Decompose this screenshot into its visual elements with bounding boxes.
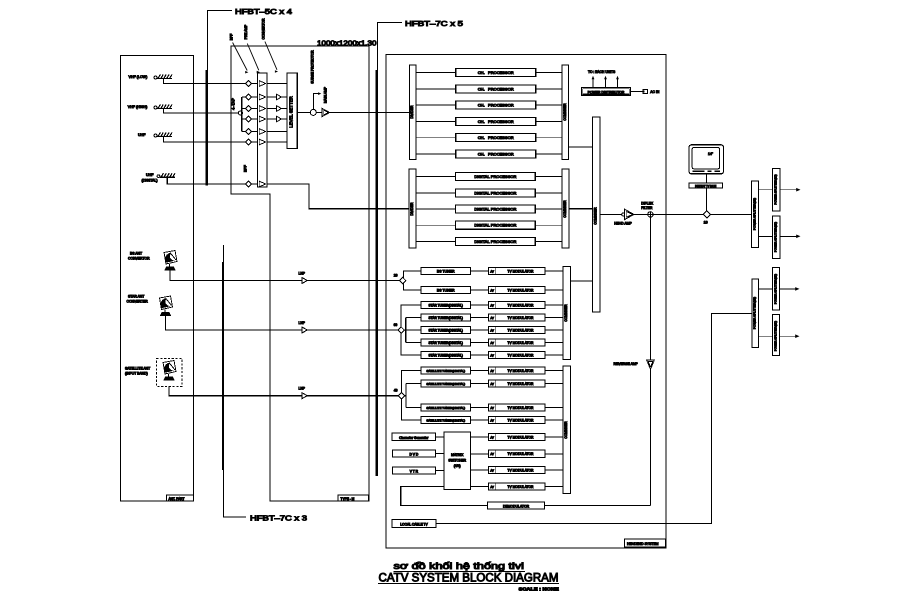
antenna VHF (HIGH) (128, 105, 172, 110)
svg-text:BS TUNER: BS TUNER (437, 269, 455, 273)
AV TV MODULATOR 11 (489, 416, 563, 423)
svg-text:POWER SPLITTER(2B): POWER SPLITTER(2B) (752, 198, 756, 230)
svg-text:POWER SPLITTER(2B): POWER SPLITTER(2B) (753, 297, 757, 329)
svg-text:TV MODULATOR: TV MODULATOR (508, 406, 535, 410)
COMBINER bar (SATELLITE/matrix modulators) (563, 366, 571, 494)
svg-text:POWER SPLITTER(2D): POWER SPLITTER(2D) (774, 222, 778, 252)
wire local cable tv to power splitter group 2 (436, 313, 752, 523)
svg-text:TV MODULATOR: TV MODULATOR (508, 435, 535, 439)
CH PROCESSOR 6 (416, 150, 562, 158)
svg-text:TV MODULATOR: TV MODULATOR (508, 452, 535, 456)
wire VHF (LOW) to BPF diamond (164, 79, 246, 84)
svg-text:TV MODULATOR: TV MODULATOR (508, 353, 535, 357)
rotated label BPF with arrow to diamond column (230, 34, 249, 74)
pre-amplifier triangle row 5 (259, 129, 265, 135)
svg-text:STAR TUNER(DIGITAL): STAR TUNER(DIGITAL) (429, 328, 463, 332)
svg-text:UHF: UHF (146, 173, 154, 177)
DIGITAL PROCESSOR 2 (416, 189, 562, 197)
svg-text:TV MODULATOR: TV MODULATOR (508, 303, 535, 307)
svg-text:COMBINER: COMBINER (564, 421, 568, 439)
svg-text:AV: AV (490, 269, 494, 273)
POWER SPLITTER sub-bar 1A (759, 168, 801, 211)
svg-text:VHF (LOW): VHF (LOW) (129, 75, 148, 79)
svg-text:AV: AV (490, 369, 494, 373)
svg-text:STAR ANT: STAR ANT (128, 295, 144, 299)
svg-text:CH. PROCESSOR: CH. PROCESSOR (478, 135, 514, 140)
antenna STAR ANT CONVERTER (127, 295, 173, 316)
wire LNP to SATELLITE splitter diamond (307, 395, 398, 397)
wire diamond to amp row 7 (252, 183, 258, 185)
svg-text:TV MODULATOR: TV MODULATOR (508, 316, 535, 320)
wire LNP to STAR splitter diamond (307, 329, 398, 331)
svg-text:DETECT TV MON: DETECT TV MON (695, 184, 716, 188)
svg-text:1000x1200x1.30: 1000x1200x1.30 (317, 41, 377, 48)
svg-text:SATELLITE TUNER(DIGITAL): SATELLITE TUNER(DIGITAL) (426, 406, 465, 410)
AV TV MODULATOR 7 (489, 351, 564, 358)
svg-text:TV MODULATOR: TV MODULATOR (508, 341, 535, 345)
svg-text:BS ANT: BS ANT (130, 252, 142, 256)
AV TV MODULATOR 14 (489, 466, 563, 473)
svg-text:COMBINER: COMBINER (563, 200, 567, 218)
svg-text:HEAD AMP: HEAD AMP (614, 222, 632, 226)
BPF diamond row 5 (246, 129, 252, 135)
svg-text:14": 14" (708, 152, 714, 156)
AV TV MODULATOR 6 (489, 339, 564, 346)
BPF diamond row 7 (246, 181, 252, 187)
svg-text:SCALE : NONE: SCALE : NONE (519, 587, 559, 592)
wire diamond to amp row 1 (252, 83, 258, 85)
svg-text:AV: AV (490, 468, 494, 472)
svg-text:POWER SPLITTER(2D): POWER SPLITTER(2D) (773, 274, 777, 304)
svg-text:CH. PROCESSOR: CH. PROCESSOR (478, 86, 514, 91)
rotated label PRE AMP with arrow to amp bank (244, 24, 260, 74)
svg-text:STAR TUNER(DIGITAL): STAR TUNER(DIGITAL) (429, 353, 463, 357)
svg-text:ANT. PART: ANT. PART (169, 497, 185, 501)
wire BS/STAR combiner to main combiner (571, 280, 593, 282)
second stage amplifier row 3 (267, 106, 287, 112)
DIGITAL COMBINER bar (562, 169, 569, 248)
wires matrix switcher outputs to modulators (471, 437, 489, 487)
LNP amplifier (STAR line) (299, 321, 308, 333)
booster equipment enclosure box (stepped) (231, 46, 369, 501)
wires amp bank to level setter rows 1,5,6 (267, 84, 287, 143)
svg-text:DIGITAL PROCESSOR: DIGITAL PROCESSOR (474, 174, 516, 179)
BS branch wires (404, 271, 421, 290)
wire BPF bypass output to DIGITAL divider (267, 184, 409, 209)
POWER SPLITTER sub-bar 2A (758, 267, 799, 310)
svg-text:COMBINER: COMBINER (594, 207, 598, 225)
POWER DISTRIBUTOR box (581, 88, 630, 96)
svg-text:VHF (HIGH): VHF (HIGH) (128, 105, 148, 109)
BS splitter diamond (399, 277, 405, 283)
BPF diamond row 6 (246, 139, 252, 145)
DIGITAL PROCESSOR 5 (416, 238, 562, 246)
AV TV MODULATOR 10 (489, 404, 563, 411)
antenna part enclosure box (121, 56, 194, 502)
svg-text:AV: AV (490, 418, 494, 422)
BS TUNER 2 (421, 286, 489, 293)
svg-text:TV MODULATOR: TV MODULATOR (508, 369, 535, 373)
antenna UHF (138, 133, 172, 138)
BS TUNER 1 (421, 267, 489, 274)
svg-text:AV: AV (490, 288, 494, 292)
DVD box (392, 450, 444, 457)
CH PROCESSOR 4 (416, 117, 562, 125)
antenna SATELLITE ANT (INPUT BAND) (125, 359, 182, 387)
antenna BS ANT CONVERTOR (128, 251, 177, 271)
label box HEADEND SYSTEM (625, 539, 666, 547)
svg-text:LNP: LNP (299, 321, 306, 325)
4-TAP distribution wires (242, 97, 246, 132)
MATRIX SWITCHER box (444, 432, 471, 490)
svg-text:LNP: LNP (299, 387, 306, 391)
wire BS antenna to LNP (170, 270, 302, 280)
svg-text:DIPLEX: DIPLEX (641, 202, 654, 206)
wire demodulator to matrix switcher input 4 (401, 487, 488, 506)
second stage amplifier row 2 (267, 94, 287, 100)
SATELLITE TUNER 4 (421, 416, 489, 423)
svg-text:LNP: LNP (299, 271, 306, 275)
DIGITAL DIVIDER bar (409, 169, 416, 248)
rotated label CONVERTOR with arrow (262, 18, 279, 73)
AV TV MODULATOR 5 (489, 326, 564, 333)
svg-text:AV: AV (490, 328, 494, 332)
svg-text:4–TAP: 4–TAP (230, 98, 235, 110)
svg-text:AV: AV (490, 303, 494, 307)
svg-text:COMBINER: COMBINER (564, 304, 568, 322)
svg-text:BS TUNER: BS TUNER (437, 288, 455, 292)
STAR TUNER(DIGITAL) 2 (421, 314, 489, 321)
svg-text:AV: AV (490, 435, 494, 439)
LEVEL SETTER box (287, 73, 297, 149)
surge protector circle (310, 109, 316, 115)
monitor junction diamond with label 10 (703, 211, 710, 225)
svg-text:TV MODULATOR: TV MODULATOR (508, 485, 535, 489)
REVERSE AMP (614, 360, 655, 369)
pre-amplifier triangle row 1 (259, 81, 265, 87)
svg-text:(INPUT BAND): (INPUT BAND) (125, 372, 148, 376)
AV TV MODULATOR 4 (489, 314, 564, 321)
wire main amp to CH divider (330, 112, 410, 114)
svg-text:20: 20 (394, 274, 398, 278)
wire diamond to amp row 2 (252, 96, 258, 98)
SATELLITE TUNER 1 (421, 367, 489, 374)
DIGITAL PROCESSOR 4 (416, 221, 562, 229)
wire monitor to junction (706, 174, 708, 211)
svg-text:BPF: BPF (230, 34, 234, 40)
AV TV MODULATOR 8 (489, 367, 563, 374)
leader HFBT-5C x 4 (206, 7, 292, 186)
svg-text:MATRIX: MATRIX (451, 453, 464, 457)
DIPLEX FILTER (641, 202, 654, 218)
svg-text:CH. PROCESSOR: CH. PROCESSOR (478, 103, 514, 108)
wire diamond to amp row 5 (252, 131, 258, 133)
svg-text:HEADEND SYSTEM: HEADEND SYSTEM (627, 542, 659, 546)
antenna VHF (LOW) (129, 75, 173, 80)
wire demodulator to reverse path (545, 505, 651, 507)
reverse path wire from diplex filter down to demodulator (649, 217, 651, 506)
svg-text:DIGITAL PROCESSOR: DIGITAL PROCESSOR (474, 223, 516, 228)
POWER SPLITTER sub-bar 1B (759, 216, 801, 258)
svg-text:10: 10 (704, 220, 708, 224)
svg-text:LOCAL CABLE TV: LOCAL CABLE TV (400, 523, 428, 527)
svg-text:HFBT–7C x 5: HFBT–7C x 5 (405, 19, 463, 28)
svg-text:(4/4): (4/4) (454, 464, 461, 468)
wire UHF (DIGITAL) to BPF diamond (167, 177, 246, 184)
MAIN COMBINER bar (593, 117, 601, 312)
AV TV MODULATOR 1 (489, 267, 564, 274)
leader HFBT-7C x 5 (376, 19, 463, 476)
svg-text:TV MODULATOR: TV MODULATOR (508, 382, 535, 386)
wire diamond to amp row 3 (252, 108, 258, 110)
svg-text:TV MODULATOR: TV MODULATOR (508, 468, 535, 472)
SATELLITE branch wires (401, 371, 421, 421)
CH PROCESSOR 3 (416, 101, 562, 109)
svg-text:V T R: V T R (410, 470, 419, 474)
wire VHF (HIGH) to 4-TAP (164, 109, 239, 114)
leader HFBT-7C x 3 (222, 245, 307, 523)
svg-text:AC IN: AC IN (650, 90, 660, 94)
svg-text:DIGITAL PROCESSOR: DIGITAL PROCESSOR (474, 207, 516, 212)
svg-text:(DIGITAL): (DIGITAL) (142, 179, 158, 183)
svg-text:D V D: D V D (410, 453, 419, 457)
svg-text:sơ đồ khối hệ thống tivi: sơ đồ khối hệ thống tivi (394, 561, 525, 571)
pre-amplifier triangle row 2 (259, 94, 265, 100)
SURGE PROTECTOR label and arrow (311, 50, 322, 109)
wire CH combiner to main combiner (569, 146, 593, 148)
AV TV MODULATOR 2 (489, 286, 564, 293)
pre-amplifier triangle row 3 (259, 106, 265, 112)
svg-text:DIGITAL PROCESSOR: DIGITAL PROCESSOR (474, 239, 516, 244)
svg-text:AV: AV (490, 353, 494, 357)
POWER SPLITTER bar (group 2 main) (752, 279, 758, 348)
wire level setter output (297, 112, 310, 114)
LNP amplifier (BS line) (299, 271, 308, 283)
CH COMBINER bar (562, 65, 569, 160)
STAR TUNER(DIGITAL) 1 (421, 301, 489, 308)
svg-text:AV: AV (490, 382, 494, 386)
POWER SPLITTER bar (group 1 main) (751, 181, 758, 248)
4-TAP junction circle (238, 111, 242, 115)
svg-text:REVERSE AMP: REVERSE AMP (614, 362, 639, 366)
svg-text:STAR TUNER(DIGITAL): STAR TUNER(DIGITAL) (429, 341, 463, 345)
svg-text:POWER DISTRIBUTOR: POWER DISTRIBUTOR (588, 90, 625, 94)
svg-text:SURGE PROTECTOR: SURGE PROTECTOR (311, 50, 315, 84)
svg-text:TYPE - M: TYPE - M (341, 497, 355, 501)
svg-text:40: 40 (394, 389, 398, 393)
monitor label box DETECT TV MON (689, 183, 722, 188)
STAR splitter diamond (398, 327, 404, 333)
svg-text:Character Generator: Character Generator (399, 436, 429, 440)
wire combiner to head amp (600, 213, 624, 215)
title CATV SYSTEM BLOCK DIAGRAM (378, 570, 559, 584)
LNP amplifier (SATELLITE line) (299, 387, 308, 399)
AV TV MODULATOR 9 (489, 380, 563, 387)
HEAD AMP (614, 209, 634, 225)
pre-amplifier triangle row 6 (259, 139, 265, 145)
MAIN AMP label and triangle (322, 86, 329, 116)
svg-text:FILTER: FILTER (641, 206, 653, 210)
pre-amplifier triangle row 7 (259, 181, 265, 187)
svg-text:TV MODULATOR: TV MODULATOR (508, 269, 535, 273)
svg-text:HFBT–5C x 4: HFBT–5C x 4 (235, 7, 292, 16)
TO : EACH UNITS label and arrows (588, 70, 619, 87)
AV TV MODULATOR 15 (489, 483, 563, 490)
CH PROCESSOR 1 (416, 69, 562, 77)
svg-text:POWER SPLITTER(2D): POWER SPLITTER(2D) (773, 321, 777, 351)
LOCAL CABLE TV box (392, 520, 436, 528)
second stage amplifier row 4 (267, 116, 287, 122)
CH PROCESSOR 2 (416, 85, 562, 93)
STAR TUNER(DIGITAL) 4 (421, 339, 489, 346)
BPF diamond row 4 (246, 116, 252, 122)
svg-text:TV MODULATOR: TV MODULATOR (508, 418, 535, 422)
SATELLITE splitter diamond (398, 393, 404, 399)
svg-text:CH. PROCESSOR: CH. PROCESSOR (478, 70, 514, 75)
svg-text:MAIN AMP: MAIN AMP (324, 86, 328, 103)
TV monitor 14 inch (689, 145, 724, 174)
label box ANT. PART (167, 495, 194, 501)
wire head amp to diplex filter (634, 213, 648, 215)
svg-text:LEVEL SETTER: LEVEL SETTER (289, 96, 294, 127)
wire DIGITAL combiner to main combiner (569, 208, 593, 210)
wire diamond to amp row 6 (252, 141, 258, 143)
headend system enclosure box (386, 55, 666, 549)
COMBINER bar (BS/STAR modulators) (563, 267, 571, 360)
svg-text:TO : EACH UNITS: TO : EACH UNITS (588, 70, 616, 74)
STAR branch wires (401, 305, 421, 355)
svg-text:STAR TUNER(DIGITAL): STAR TUNER(DIGITAL) (429, 303, 463, 307)
svg-text:PRE AMP: PRE AMP (244, 24, 248, 39)
pre-amplifier triangle row 4 (259, 116, 265, 122)
DIGITAL PROCESSOR 1 (416, 173, 562, 181)
VTR box (392, 467, 444, 474)
svg-text:TV MODULATOR: TV MODULATOR (508, 328, 535, 332)
svg-text:AV: AV (490, 452, 494, 456)
SATELLITE TUNER 3 (421, 404, 489, 411)
svg-text:POWER SPLITTER(2D): POWER SPLITTER(2D) (774, 174, 778, 204)
svg-text:COMBINER: COMBINER (563, 103, 567, 121)
svg-text:CONVERTER: CONVERTER (127, 300, 149, 304)
BPF diamond row 2 (246, 94, 252, 100)
STAR TUNER(DIGITAL) 5 (421, 351, 489, 358)
AV TV MODULATOR 13 (489, 450, 563, 457)
SATELLITE TUNER 2 (421, 380, 489, 387)
svg-text:DEMODULATOR: DEMODULATOR (503, 505, 530, 509)
wire UHF to BPF diamond (164, 137, 246, 143)
label box TYPE - M (338, 495, 369, 501)
STAR TUNER(DIGITAL) 3 (421, 326, 489, 333)
DEMODULATOR box (488, 502, 545, 509)
wire LNP to BS splitter diamond (307, 280, 399, 282)
AV TV MODULATOR 12 (489, 433, 563, 440)
antenna UHF (DIGITAL) (142, 173, 176, 183)
CHARACTER GENERATOR box (392, 433, 444, 441)
wire diamond to amp row 4 (252, 118, 258, 120)
BPF diamond row 1 (246, 81, 252, 87)
svg-text:SATELLITE ANT: SATELLITE ANT (125, 367, 150, 371)
DIGITAL PROCESSOR 3 (416, 205, 562, 213)
svg-text:AV: AV (490, 341, 494, 345)
svg-text:HFBT–7C x 3: HFBT–7C x 3 (250, 514, 307, 523)
pre-amplifier bank rectangle (258, 73, 267, 187)
svg-text:SATELLITE TUNER(DIGITAL): SATELLITE TUNER(DIGITAL) (426, 382, 465, 386)
svg-text:60: 60 (394, 323, 398, 327)
svg-text:BPF: BPF (244, 164, 248, 172)
svg-text:CONVERTOR: CONVERTOR (128, 257, 150, 261)
wire SATELLITE antenna to LNP (169, 387, 302, 396)
wire diplex filter to monitor junction and splitter (653, 213, 751, 215)
svg-text:CONVERTOR: CONVERTOR (262, 18, 266, 40)
svg-text:SATELLITE TUNER(DIGITAL): SATELLITE TUNER(DIGITAL) (426, 418, 465, 422)
wire STAR antenna to LNP (166, 316, 302, 330)
svg-text:TV MODULATOR: TV MODULATOR (508, 288, 535, 292)
POWER SPLITTER sub-bar 2B (758, 314, 799, 355)
svg-text:CH. PROCESSOR: CH. PROCESSOR (478, 152, 514, 157)
svg-text:AV: AV (490, 485, 494, 489)
svg-text:DIGITAL PROCESSOR: DIGITAL PROCESSOR (474, 190, 516, 195)
svg-text:SATELLITE TUNER(DIGITAL): SATELLITE TUNER(DIGITAL) (426, 369, 465, 373)
svg-text:CATV SYSTEM BLOCK DIAGRAM: CATV SYSTEM BLOCK DIAGRAM (379, 570, 559, 584)
AC IN connector (631, 89, 660, 94)
svg-text:DIVIDER: DIVIDER (410, 202, 414, 216)
svg-text:CH. PROCESSOR: CH. PROCESSOR (478, 119, 514, 124)
title vietnamese line (394, 561, 526, 572)
svg-text:DIVIDER: DIVIDER (410, 105, 414, 119)
svg-text:AV: AV (490, 316, 494, 320)
CH DIVIDER bar (410, 65, 417, 160)
svg-text:AV: AV (490, 406, 494, 410)
BPF diamond row 3 (246, 106, 252, 112)
CH PROCESSOR 5 (416, 134, 562, 142)
wire surge protector to main amp (316, 112, 322, 114)
svg-text:SWITCHER: SWITCHER (448, 459, 466, 463)
AV TV MODULATOR 3 (489, 301, 564, 308)
svg-text:UHF: UHF (138, 133, 146, 137)
svg-text:STAR TUNER(DIGITAL): STAR TUNER(DIGITAL) (429, 316, 463, 320)
